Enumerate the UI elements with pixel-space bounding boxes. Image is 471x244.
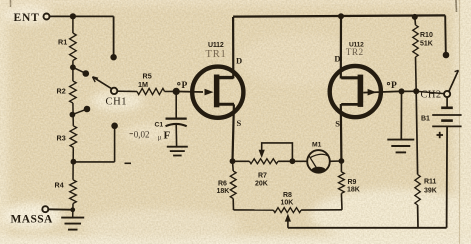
resistor R6 — [230, 171, 236, 199]
svg-text:ENT: ENT — [14, 12, 40, 24]
resistor R4 — [70, 180, 77, 204]
R8 wiper — [285, 214, 291, 228]
wire rail right drop — [444, 15, 447, 54]
wire CH1 to R5 — [117, 90, 137, 92]
label CH2 — [421, 90, 442, 101]
wire R7 to M1 — [278, 160, 307, 162]
wire source bus left — [233, 160, 250, 162]
label S TR2 — [335, 119, 340, 129]
svg-text:39K: 39K — [424, 188, 437, 195]
svg-text:C1: C1 — [155, 122, 164, 129]
resistor R1 — [70, 33, 77, 61]
label 18K R9 — [347, 187, 360, 194]
svg-text:R8: R8 — [283, 192, 292, 199]
label S TR1 — [237, 118, 242, 128]
transistor TR2 circle — [330, 66, 381, 117]
label B1 — [421, 116, 430, 123]
wire R10 top — [414, 17, 417, 25]
wire P to C1 — [175, 91, 177, 118]
label R3 — [57, 134, 66, 143]
node R10 rail — [412, 14, 418, 20]
terminal MASSA — [42, 206, 48, 212]
wire R6 bottom corner — [232, 199, 234, 211]
potentiometer R7 — [249, 159, 278, 164]
node divider top — [70, 13, 76, 19]
wire bottom rail — [288, 227, 447, 229]
ground MASSA — [61, 218, 84, 230]
node R2/R3 — [70, 112, 76, 118]
label R7 — [258, 173, 267, 180]
label R2 — [57, 87, 66, 96]
label R5 — [143, 72, 152, 81]
node R10/R11/CH2 — [413, 88, 419, 94]
label uF — [158, 130, 171, 142]
TR2 source arm — [341, 103, 360, 106]
label 10K — [281, 200, 294, 207]
svg-text:R3: R3 — [57, 134, 66, 143]
switch CH1 pole — [111, 88, 117, 94]
wire tap to CH1 contact 4 — [73, 126, 114, 162]
label ENT — [14, 12, 40, 24]
label MASSA — [11, 214, 54, 226]
wire R1 top — [72, 16, 74, 33]
label R4 — [55, 181, 64, 190]
label 39K — [424, 188, 437, 195]
wire C1 to ground — [175, 125, 177, 147]
svg-text:B1: B1 — [421, 116, 430, 123]
label U112 TR2 — [346, 41, 364, 58]
ground P — [387, 140, 414, 153]
resistor R3 — [70, 126, 77, 148]
contact dot CH2 — [443, 52, 450, 59]
node R3/R4 — [71, 159, 77, 165]
svg-text:1M: 1M — [138, 80, 148, 89]
node TR2 drain rail — [338, 13, 344, 19]
svg-text:R6: R6 — [218, 181, 227, 188]
node TR1 source junction — [230, 158, 236, 164]
resistor R2 — [70, 81, 77, 103]
node P (TR1 gate) — [173, 88, 180, 95]
svg-text:U112: U112 — [208, 42, 224, 49]
TR2 drain lead — [340, 16, 342, 78]
label 20K — [255, 181, 268, 188]
switch CH1 arm — [93, 77, 112, 89]
wire ENT to divider top — [50, 15, 114, 17]
label R1 — [58, 38, 67, 47]
svg-text:18K: 18K — [217, 188, 230, 195]
wire B1 to bottom rail — [446, 126, 449, 227]
contact stub CH1-3 — [72, 106, 90, 115]
svg-text:R2: R2 — [57, 87, 66, 96]
svg-text:TR2: TR2 — [346, 48, 364, 58]
svg-text:R4: R4 — [55, 181, 64, 190]
node TR2 source junction — [339, 158, 345, 164]
label M1 — [312, 142, 322, 149]
TR1 drain lead — [232, 17, 234, 79]
svg-text:M1: M1 — [312, 142, 322, 149]
svg-text:R7: R7 — [258, 173, 267, 180]
wire R1-R2 — [72, 61, 74, 82]
label CH1 — [106, 97, 128, 108]
svg-text:0,02: 0,02 — [134, 129, 150, 139]
transistor TR1 circle — [192, 67, 243, 118]
svg-text:CH1: CH1 — [106, 97, 128, 108]
svg-text:P: P — [182, 81, 188, 91]
svg-text:F: F — [164, 130, 171, 142]
wire MASSA — [48, 208, 70, 210]
TR1 source lead — [233, 104, 234, 161]
terminal J1 (ENT) — [44, 14, 50, 20]
svg-text:μ: μ — [158, 133, 162, 142]
svg-text:S: S — [237, 118, 242, 128]
resistor R11 — [415, 175, 420, 206]
label 51K — [420, 41, 433, 48]
wire R3-R4 — [72, 147, 74, 179]
wire P to ground — [400, 91, 402, 139]
wire R5 to node P — [165, 90, 177, 92]
wire R4 to ground — [72, 204, 74, 218]
label R8 — [283, 192, 292, 199]
svg-text:D: D — [334, 54, 340, 64]
wire to CH1 contact 1 — [113, 16, 115, 55]
label U112 TR1 — [206, 42, 227, 60]
svg-text:R11: R11 — [424, 179, 437, 186]
resistor R10 — [413, 25, 418, 57]
svg-text:18K: 18K — [347, 187, 360, 194]
label D TR2 — [334, 54, 340, 64]
TR2 gate arrow — [363, 89, 399, 96]
svg-text:R1: R1 — [58, 38, 67, 47]
capacitor C1 — [166, 119, 187, 127]
TR1 channel bar — [214, 75, 220, 108]
wire R9 bottom — [340, 193, 343, 209]
wire R6 top — [232, 161, 235, 171]
TR2 source lead — [340, 104, 343, 161]
wire R9 top — [340, 161, 342, 172]
wire lower bus right — [301, 209, 342, 211]
label plus — [437, 132, 444, 138]
svg-text:CH2: CH2 — [421, 90, 442, 101]
svg-text:R9: R9 — [348, 179, 357, 186]
label P right — [387, 81, 397, 91]
label R9 — [348, 179, 357, 186]
TR1 source arm — [216, 103, 235, 106]
meter M1 — [307, 150, 330, 173]
label P left — [178, 81, 188, 91]
svg-text:TR1: TR1 — [206, 49, 227, 60]
wire P to R11 node — [402, 90, 417, 92]
wire CH2 to B1 — [446, 97, 448, 107]
wire top rail — [233, 15, 445, 16]
contact stub CH1-2 — [73, 67, 89, 76]
battery B1 — [432, 108, 461, 127]
svg-text:D: D — [236, 56, 242, 66]
wire R11 top — [416, 91, 417, 174]
wire R11 bottom — [417, 205, 419, 228]
label D TR1 — [236, 56, 242, 66]
minus mark — [125, 162, 132, 164]
wire R2-R3 — [72, 103, 74, 126]
label 18K — [217, 188, 230, 195]
svg-text:R10: R10 — [420, 32, 433, 39]
potentiometer R8 — [273, 208, 301, 213]
label C1 — [155, 122, 164, 129]
label R6 — [218, 181, 227, 188]
resistor R9 — [339, 172, 345, 194]
TR1 drain arm — [216, 76, 234, 79]
node R7 right — [290, 158, 296, 164]
svg-text:P: P — [391, 81, 397, 91]
ground C1 — [167, 147, 188, 156]
wire lower bus left — [234, 209, 274, 211]
TR1 gate arrow — [179, 89, 214, 96]
label R10 — [420, 32, 433, 39]
svg-text:MASSA: MASSA — [11, 214, 54, 226]
contact dot CH1-4 — [111, 123, 118, 130]
node R1/R2 — [70, 64, 76, 70]
label R11 — [424, 179, 437, 186]
node MASSA — [70, 207, 75, 212]
switch CH2 pole — [444, 91, 450, 97]
node P (TR2 gate) — [399, 88, 405, 94]
R7 wiper — [259, 143, 293, 159]
svg-text:51K: 51K — [420, 41, 433, 48]
wire M1 to TR2 source — [330, 160, 341, 162]
TR2 drain arm — [341, 76, 360, 79]
wire node to CH2 — [416, 91, 444, 93]
wire R10 bottom — [415, 57, 418, 91]
svg-text:10K: 10K — [281, 200, 294, 207]
switch CH2 arm — [449, 70, 459, 91]
label 1M — [138, 80, 148, 89]
svg-text:S: S — [335, 119, 340, 129]
contact dot CH1-1 — [110, 54, 116, 60]
svg-text:20K: 20K — [255, 181, 268, 188]
TR2 channel bar — [358, 75, 364, 107]
label 0,02 — [130, 129, 150, 139]
scan edge line right — [459, 0, 461, 244]
resistor R5 — [137, 88, 165, 94]
